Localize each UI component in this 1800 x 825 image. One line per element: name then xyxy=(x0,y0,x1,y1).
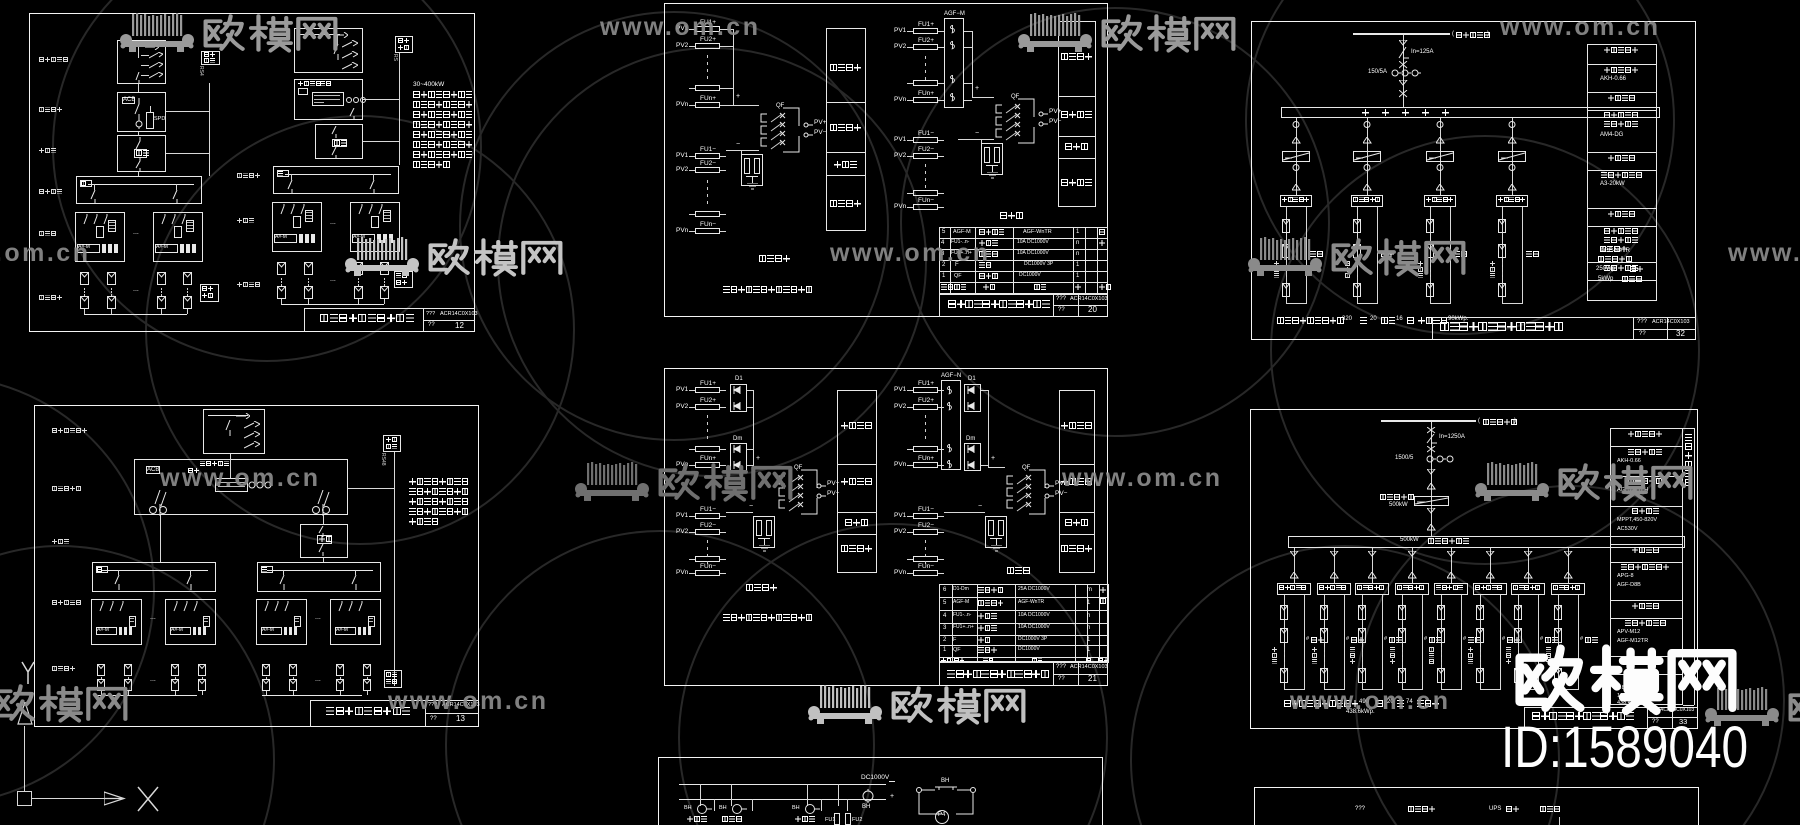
wire xyxy=(1013,227,1014,294)
wire xyxy=(720,46,726,47)
wire xyxy=(925,70,926,73)
wire xyxy=(373,174,374,180)
QF breaker xyxy=(776,103,784,110)
wire xyxy=(150,106,151,112)
wire xyxy=(689,407,695,408)
wire xyxy=(939,657,1109,658)
wire xyxy=(938,207,944,208)
wire xyxy=(975,227,976,294)
wire xyxy=(187,222,193,223)
component box xyxy=(1351,195,1383,207)
wire xyxy=(293,677,294,679)
component box xyxy=(913,529,938,535)
wire xyxy=(384,215,390,216)
QF breaker xyxy=(1022,465,1030,472)
wire xyxy=(720,231,726,232)
wire xyxy=(720,516,726,517)
component box xyxy=(1280,668,1288,683)
wire xyxy=(1502,277,1503,280)
component box xyxy=(695,529,720,535)
component box xyxy=(1514,668,1522,683)
component box xyxy=(695,556,720,562)
wire xyxy=(1587,64,1657,65)
component box xyxy=(335,627,356,635)
component box xyxy=(913,556,938,562)
wire xyxy=(1304,595,1305,689)
component box xyxy=(1554,628,1562,643)
wire xyxy=(1587,226,1657,227)
component box xyxy=(289,679,297,691)
caption 分组接线 xyxy=(746,584,753,591)
wire xyxy=(1667,317,1668,340)
component box xyxy=(1610,428,1683,705)
wire xyxy=(175,677,176,679)
wire xyxy=(1324,662,1325,665)
wire xyxy=(988,467,1005,468)
component box xyxy=(913,387,938,393)
component box xyxy=(1551,583,1585,595)
component box xyxy=(122,97,135,104)
component box xyxy=(394,271,413,288)
watermark logo instance xyxy=(1700,686,1800,728)
component box xyxy=(203,616,210,627)
component box xyxy=(129,616,136,627)
wire xyxy=(1683,705,1694,706)
wire xyxy=(1362,689,1383,690)
wire xyxy=(306,212,312,213)
wire xyxy=(281,278,282,280)
wire xyxy=(363,141,399,142)
component box xyxy=(1358,628,1366,643)
component box xyxy=(363,664,371,676)
diode group D1 xyxy=(735,376,743,383)
wire xyxy=(314,99,340,100)
component box xyxy=(1280,605,1288,620)
wire xyxy=(938,47,944,48)
component box xyxy=(1476,605,1484,620)
title 光伏汇流箱电气原理图(三) xyxy=(947,670,955,678)
wire xyxy=(958,139,994,140)
component box xyxy=(317,535,332,544)
wire xyxy=(689,214,695,215)
wire xyxy=(1284,662,1285,665)
wire xyxy=(166,153,209,154)
wire xyxy=(720,449,726,450)
wire xyxy=(138,132,139,135)
wire xyxy=(308,299,309,304)
wire xyxy=(1324,657,1325,660)
wire xyxy=(707,69,708,72)
component box xyxy=(1353,151,1381,162)
watermark url xyxy=(1728,240,1800,268)
wire xyxy=(944,512,985,513)
wire xyxy=(986,165,998,166)
wire xyxy=(1402,652,1403,655)
wire xyxy=(209,83,210,176)
wire xyxy=(281,281,282,283)
wire xyxy=(952,584,953,662)
component box xyxy=(754,158,760,174)
wire xyxy=(939,294,1108,295)
wire xyxy=(283,570,284,575)
wire xyxy=(304,308,475,309)
wire xyxy=(720,88,726,89)
wire xyxy=(1587,92,1657,93)
wire xyxy=(821,799,822,811)
wire xyxy=(1518,652,1519,655)
wire xyxy=(925,436,926,439)
component box xyxy=(215,478,248,492)
wire xyxy=(837,534,877,535)
component box xyxy=(998,520,1004,536)
watermark url xyxy=(1290,688,1450,716)
wire xyxy=(1558,689,1579,690)
wire xyxy=(1431,422,1432,536)
wire xyxy=(938,559,944,560)
wire xyxy=(1502,207,1503,303)
component box xyxy=(157,272,166,285)
component box xyxy=(294,28,363,73)
origin square xyxy=(17,791,32,806)
col header UPS xyxy=(1506,806,1512,812)
PV module spec cell xyxy=(1600,246,1606,252)
wire xyxy=(1402,595,1403,689)
wire xyxy=(1432,317,1433,340)
component box xyxy=(75,212,125,262)
wire xyxy=(138,172,139,176)
wire xyxy=(1587,208,1657,209)
title 建筑光伏项目设计示例(三) xyxy=(1532,712,1540,720)
wire xyxy=(720,573,726,574)
wire xyxy=(1587,280,1657,281)
component box xyxy=(77,244,100,253)
component box xyxy=(994,147,1000,163)
wire xyxy=(1403,35,1404,107)
sheet1 left margin labels xyxy=(39,57,44,62)
sheet2 note paragraph xyxy=(409,478,416,485)
watermark logo instance xyxy=(1013,12,1238,54)
wire xyxy=(1087,584,1088,662)
wire xyxy=(1518,657,1519,660)
wire xyxy=(1053,662,1054,686)
wire xyxy=(939,294,940,317)
component box xyxy=(96,566,108,573)
component box xyxy=(1426,244,1434,258)
wire xyxy=(939,597,1109,598)
wire xyxy=(230,459,231,478)
watermark logo instance xyxy=(1243,236,1468,278)
component box xyxy=(354,286,363,299)
component box xyxy=(146,466,160,474)
wire xyxy=(187,294,188,296)
wire xyxy=(714,799,715,811)
wire xyxy=(323,558,324,563)
wire xyxy=(731,784,732,806)
wire xyxy=(138,46,139,58)
wire xyxy=(689,170,695,171)
component box xyxy=(124,679,132,691)
wire xyxy=(266,691,267,695)
component box xyxy=(97,679,105,691)
wire xyxy=(128,677,129,679)
wire xyxy=(707,561,708,564)
wire xyxy=(907,573,913,574)
component box xyxy=(695,85,720,91)
wire xyxy=(1053,305,1108,306)
wire xyxy=(1502,303,1523,304)
wire xyxy=(384,212,390,213)
wire xyxy=(187,309,188,314)
component box xyxy=(1426,283,1434,297)
wire xyxy=(689,29,695,30)
wire xyxy=(367,691,368,695)
component box xyxy=(201,51,220,65)
wire xyxy=(399,53,400,165)
component box xyxy=(293,216,301,228)
wire xyxy=(1362,662,1363,665)
wire xyxy=(752,799,753,811)
component box xyxy=(186,220,194,232)
component box xyxy=(913,28,938,34)
component box xyxy=(1280,628,1288,643)
wire xyxy=(964,83,972,84)
wire xyxy=(176,184,177,190)
component box xyxy=(277,170,289,177)
wire xyxy=(720,29,726,30)
component box xyxy=(837,390,877,573)
component box xyxy=(1280,195,1312,207)
component box xyxy=(845,813,851,825)
wire xyxy=(1286,207,1287,303)
wire xyxy=(367,677,368,679)
wire xyxy=(996,539,997,545)
component box xyxy=(695,167,720,173)
wire xyxy=(707,554,708,557)
component box xyxy=(913,462,938,468)
wire xyxy=(707,540,708,543)
wire xyxy=(1357,277,1358,280)
wire xyxy=(1524,707,1698,708)
wire xyxy=(423,308,424,332)
component box xyxy=(336,664,344,676)
component box xyxy=(913,190,938,196)
wire xyxy=(938,516,944,517)
wire xyxy=(1015,584,1016,662)
component box xyxy=(985,516,1007,548)
wire xyxy=(938,573,944,574)
wire xyxy=(204,621,208,622)
wire xyxy=(88,184,194,185)
wire xyxy=(394,452,395,686)
wire xyxy=(1480,595,1481,689)
wire xyxy=(1610,674,1683,675)
wire xyxy=(175,691,176,695)
wire xyxy=(938,407,944,408)
component box xyxy=(262,679,270,691)
component box xyxy=(695,102,720,108)
wire xyxy=(1284,595,1285,689)
wire xyxy=(939,662,940,686)
wire xyxy=(1357,303,1378,304)
component box xyxy=(1358,605,1366,620)
component box xyxy=(384,670,402,688)
component box xyxy=(380,286,389,299)
wire xyxy=(720,156,726,157)
wire xyxy=(306,215,312,216)
component box xyxy=(1398,668,1406,683)
wire xyxy=(141,55,149,56)
wire xyxy=(1683,428,1694,429)
wire xyxy=(1362,647,1363,650)
QF breaker xyxy=(794,465,802,472)
wire xyxy=(938,156,944,157)
component box xyxy=(1514,628,1522,643)
component box xyxy=(97,664,105,676)
wire xyxy=(1286,277,1287,280)
wire xyxy=(1053,674,1108,675)
wire xyxy=(925,56,926,59)
component box xyxy=(289,664,297,676)
wire xyxy=(1558,647,1559,650)
component box xyxy=(1254,787,1699,825)
wire xyxy=(1286,303,1307,304)
wire xyxy=(939,610,1109,611)
wire xyxy=(1286,272,1287,275)
wire xyxy=(128,691,129,695)
wire xyxy=(964,31,972,32)
component box xyxy=(826,28,866,231)
title 建筑光伏项目设计示例(二) xyxy=(1440,322,1449,331)
component box xyxy=(171,664,179,676)
BH relay circuit right xyxy=(941,778,949,785)
BH meter on bus xyxy=(861,789,875,803)
big watermark 欧模网 xyxy=(1512,641,1740,717)
component box xyxy=(117,135,166,172)
component box xyxy=(1282,151,1310,162)
wire xyxy=(1441,647,1442,650)
wire xyxy=(707,180,708,183)
PV+/PV- outputs xyxy=(1038,111,1048,127)
wire xyxy=(938,100,944,101)
component box xyxy=(939,584,1109,662)
component box xyxy=(1426,219,1434,233)
wire xyxy=(925,554,926,557)
X label xyxy=(134,783,164,815)
component box xyxy=(1282,283,1290,297)
wire xyxy=(262,695,362,696)
component box xyxy=(92,562,216,592)
PV+/PV- outputs xyxy=(803,122,813,138)
watermark url xyxy=(830,240,990,268)
wire xyxy=(1412,548,1413,583)
wire xyxy=(1284,689,1305,690)
wire xyxy=(1441,662,1442,665)
wire xyxy=(358,278,359,280)
component box xyxy=(913,446,938,452)
wire xyxy=(425,700,426,727)
component box xyxy=(1498,151,1526,162)
wire xyxy=(826,152,866,153)
wire xyxy=(1587,262,1657,263)
wire xyxy=(84,294,85,296)
wire xyxy=(1672,707,1673,729)
component box xyxy=(1414,496,1449,506)
component box xyxy=(257,562,381,592)
component box xyxy=(146,112,154,129)
PV+/PV- outputs xyxy=(1044,483,1054,499)
wire xyxy=(1490,548,1491,583)
component box xyxy=(695,513,720,519)
sheet3 left diagram xyxy=(700,19,716,26)
component box xyxy=(1058,21,1096,207)
component box xyxy=(964,443,981,471)
wire xyxy=(1524,707,1525,729)
wire xyxy=(310,700,311,727)
wire xyxy=(1353,33,1450,35)
wire xyxy=(369,621,373,622)
wire xyxy=(1058,136,1096,137)
component box xyxy=(1498,244,1506,258)
col header 4 xyxy=(1540,806,1546,812)
wire xyxy=(1059,512,1095,513)
component box xyxy=(198,679,206,691)
wire xyxy=(1430,277,1431,280)
wire xyxy=(925,164,926,167)
wire xyxy=(1357,207,1358,303)
wire xyxy=(720,559,726,560)
wire xyxy=(358,299,359,304)
minus sign xyxy=(889,781,895,782)
wire xyxy=(1610,476,1683,477)
component box xyxy=(305,210,313,222)
component box xyxy=(157,296,166,309)
big watermark ID:1589040 xyxy=(1501,716,1748,780)
component box xyxy=(664,3,1108,317)
wire xyxy=(907,207,913,208)
wire xyxy=(938,465,944,466)
component box xyxy=(203,409,265,454)
wire xyxy=(218,486,245,487)
wire xyxy=(964,47,972,48)
wire xyxy=(1558,657,1559,660)
wire xyxy=(384,278,385,280)
sheet6 note xyxy=(1277,317,1284,324)
component box xyxy=(1498,219,1506,233)
component box xyxy=(383,210,391,222)
wire xyxy=(907,193,913,194)
component box xyxy=(383,435,401,452)
wire xyxy=(689,231,695,232)
component box xyxy=(368,616,375,627)
wire xyxy=(1357,272,1358,275)
wire xyxy=(838,784,839,806)
component box xyxy=(1554,605,1562,620)
wire xyxy=(707,436,708,439)
component box xyxy=(1511,583,1545,595)
component box xyxy=(155,244,178,253)
component box xyxy=(766,520,772,536)
component box xyxy=(913,97,938,103)
component box xyxy=(165,599,216,645)
wire xyxy=(423,320,475,321)
component box xyxy=(304,262,313,275)
X arrowhead xyxy=(104,790,126,807)
component box xyxy=(1317,583,1351,595)
component box xyxy=(117,92,166,132)
wire xyxy=(1558,662,1559,665)
wire xyxy=(938,31,944,32)
component box xyxy=(1437,628,1445,643)
